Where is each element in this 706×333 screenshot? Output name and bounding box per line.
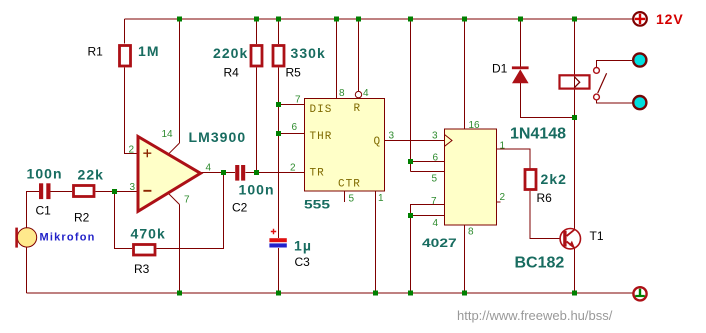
555 pin 4 inversion bubble bbox=[355, 91, 361, 97]
node bottom rail op-amp 7 bbox=[177, 291, 182, 296]
wire 4027 pin 16 to rail bbox=[464, 19, 466, 129]
wire 555 pin 1 to ground rail bbox=[375, 191, 377, 293]
node bottom rail 4027 pin 8 bbox=[462, 291, 467, 296]
wire R4 top bbox=[256, 19, 258, 44]
wire op-amp pin 14 diagonal bbox=[168, 143, 179, 154]
svg-text:220k: 220k bbox=[213, 45, 248, 61]
svg-text:C2: C2 bbox=[232, 201, 248, 215]
svg-text:7: 7 bbox=[184, 195, 190, 206]
capacitor C3 electrolytic bbox=[269, 229, 312, 269]
svg-text:12V: 12V bbox=[656, 11, 684, 27]
svg-text:http://www.freeweb.hu/bss/: http://www.freeweb.hu/bss/ bbox=[457, 308, 613, 323]
node THR bbox=[276, 131, 281, 136]
wire op-amp output to C2 bbox=[201, 172, 236, 174]
wire 4027 pin 6 stub bbox=[411, 161, 445, 163]
svg-text:R6: R6 bbox=[537, 191, 553, 205]
wire 4027 pin 5 stub bbox=[411, 171, 445, 173]
svg-text:5: 5 bbox=[432, 174, 438, 185]
svg-text:8: 8 bbox=[339, 88, 345, 99]
svg-text:DIS: DIS bbox=[310, 104, 333, 116]
svg-text:R3: R3 bbox=[134, 262, 150, 276]
wire emitter to ground rail bbox=[574, 248, 576, 294]
svg-text:6: 6 bbox=[292, 122, 298, 133]
svg-text:THR: THR bbox=[310, 131, 333, 143]
svg-text:C3: C3 bbox=[295, 255, 311, 269]
svg-text:Q: Q bbox=[374, 136, 382, 148]
wire 555 pin 5 stub bbox=[344, 191, 346, 202]
svg-text:4027: 4027 bbox=[422, 236, 457, 250]
resistor R1 bbox=[88, 43, 160, 66]
wire D1 top to rail bbox=[520, 19, 522, 67]
capacitor C1 bbox=[27, 166, 63, 218]
wire 555 pin 8 to rail bbox=[336, 19, 338, 99]
wire 4027 J K supply bbox=[410, 19, 412, 172]
wire R3 right to output node bbox=[157, 173, 224, 249]
node top rail relay bbox=[572, 17, 577, 22]
node bottom rail 4027 pin 4 bbox=[408, 291, 413, 296]
node output feedback tap bbox=[221, 170, 226, 175]
svg-text:Mikrofon: Mikrofon bbox=[40, 232, 96, 244]
svg-text:7: 7 bbox=[295, 95, 301, 106]
svg-text:22k: 22k bbox=[78, 167, 105, 183]
node D1 relay collector bbox=[572, 115, 577, 120]
node top rail R5 bbox=[276, 17, 281, 22]
svg-text:4: 4 bbox=[206, 163, 212, 174]
wire 4027 pin 2 stub bbox=[497, 201, 501, 203]
svg-text:BC182: BC182 bbox=[515, 255, 565, 272]
wire R5 bottom through DIS THR to C3 bbox=[278, 68, 280, 239]
wire R1 top to rail bbox=[124, 19, 126, 44]
svg-text:R5: R5 bbox=[286, 66, 302, 80]
node 4027 pin 4 bbox=[408, 213, 413, 218]
IC U2 555 bbox=[290, 88, 395, 211]
svg-text:T1: T1 bbox=[590, 229, 604, 243]
resistor R6 bbox=[525, 170, 567, 206]
capacitor C2 bbox=[232, 165, 275, 215]
svg-text:6: 6 bbox=[433, 153, 439, 164]
svg-text:1N4148: 1N4148 bbox=[510, 126, 566, 143]
wire op-amp pin 14 to rail bbox=[179, 19, 181, 143]
svg-text:4: 4 bbox=[433, 218, 439, 229]
svg-text:1M: 1M bbox=[138, 43, 160, 59]
wire 555 THR stub bbox=[279, 133, 305, 135]
wire 4027 pin 1 to R6 bbox=[497, 149, 531, 169]
wire mic bottom to ground rail bbox=[26, 247, 28, 293]
wire 555 DIS stub bbox=[279, 104, 305, 106]
terminal contact upper bbox=[633, 53, 646, 66]
svg-text:330k: 330k bbox=[291, 45, 326, 61]
wire R2 to op-amp pin 3 bbox=[96, 191, 140, 193]
node bottom rail C3 bbox=[276, 291, 281, 296]
node top rail D1 bbox=[518, 17, 523, 22]
transistor T1 BC182 bbox=[515, 229, 604, 272]
wire D1 bottom to relay node bbox=[521, 83, 575, 118]
wire switch lower contact bbox=[597, 100, 633, 103]
svg-text:100n: 100n bbox=[27, 166, 63, 182]
node top rail op-amp 14 bbox=[177, 17, 182, 22]
wire 555 Q to 4027 clock bbox=[385, 140, 445, 142]
svg-text:TR: TR bbox=[310, 168, 325, 180]
svg-text:4: 4 bbox=[363, 88, 369, 99]
op-amp U1 LM3900 bbox=[129, 129, 247, 211]
svg-text:2: 2 bbox=[500, 192, 506, 203]
wire R6 bottom to base bbox=[530, 191, 560, 239]
wire op-amp pin 7 diagonal bbox=[168, 193, 180, 205]
wire bottom ground rail bbox=[27, 292, 634, 294]
wire 555 pin 4 to rail bbox=[358, 19, 360, 91]
svg-text:2k2: 2k2 bbox=[541, 171, 568, 187]
svg-text:R2: R2 bbox=[74, 211, 90, 225]
terminal contact lower bbox=[633, 96, 646, 109]
wire mic to C1 bbox=[27, 192, 40, 228]
svg-text:3: 3 bbox=[432, 131, 438, 142]
svg-text:470k: 470k bbox=[131, 226, 166, 242]
relay coil K1 bbox=[560, 75, 590, 88]
svg-text:R: R bbox=[354, 103, 362, 115]
svg-text:R1: R1 bbox=[88, 45, 104, 59]
svg-text:1: 1 bbox=[500, 141, 506, 152]
resistor R5 bbox=[273, 45, 326, 80]
wire C3 bottom to ground rail bbox=[278, 248, 280, 293]
wire C1 to R2 bbox=[51, 191, 73, 193]
node 4027 pin 6 bbox=[408, 159, 413, 164]
svg-text:555: 555 bbox=[304, 197, 330, 211]
node top rail 555 pin 8 bbox=[334, 17, 339, 22]
resistor R4 bbox=[213, 45, 262, 80]
svg-text:1µ: 1µ bbox=[294, 238, 312, 254]
wire node to R3 left bbox=[115, 192, 133, 249]
node top rail 4027 pin 16 bbox=[462, 17, 467, 22]
diode D1 1N4148 bbox=[492, 62, 566, 143]
node top rail R4 bbox=[254, 17, 259, 22]
wire relay branch rail to collector bbox=[574, 19, 576, 230]
node op-amp pin 3 input bbox=[112, 189, 117, 194]
svg-text:2: 2 bbox=[290, 163, 296, 174]
svg-text:5: 5 bbox=[349, 194, 355, 205]
wire 4027 pin 7 stub bbox=[411, 205, 445, 294]
svg-text:100n: 100n bbox=[239, 182, 275, 198]
svg-text:R4: R4 bbox=[224, 66, 240, 80]
wire op-amp pin 7 to ground rail bbox=[179, 205, 181, 294]
wire R4 bottom bbox=[256, 68, 258, 173]
node bottom rail 555 pin 1 bbox=[373, 291, 378, 296]
wire top supply rail bbox=[125, 18, 633, 20]
node bottom rail emitter bbox=[572, 291, 577, 296]
wire 4027 pin 4 stub bbox=[411, 215, 445, 217]
wire C2 to 555 TR bbox=[246, 172, 305, 174]
terminal +12V bbox=[633, 11, 683, 27]
terminal ground bbox=[633, 287, 646, 300]
wire switch common upper bbox=[597, 61, 633, 68]
microphone MIC bbox=[15, 228, 95, 248]
node top rail 555 pin 4 bbox=[356, 17, 361, 22]
resistor R2 bbox=[74, 167, 105, 225]
svg-text:3: 3 bbox=[130, 182, 136, 193]
wire 4027 pin 8 to ground rail bbox=[464, 226, 466, 294]
svg-text:2: 2 bbox=[129, 145, 135, 156]
svg-text:1: 1 bbox=[378, 193, 384, 204]
svg-text:8: 8 bbox=[468, 227, 474, 238]
relay switch contacts bbox=[594, 68, 607, 100]
svg-text:C1: C1 bbox=[36, 204, 52, 218]
resistor R3 bbox=[131, 226, 166, 277]
node DIS bbox=[276, 102, 281, 107]
node R4 TR bbox=[254, 170, 259, 175]
wire R1 bottom to op-amp pin 2 bbox=[125, 68, 140, 154]
svg-text:3: 3 bbox=[389, 131, 395, 142]
svg-text:LM3900: LM3900 bbox=[189, 129, 247, 145]
svg-text:D1: D1 bbox=[492, 62, 508, 76]
svg-text:7: 7 bbox=[431, 196, 437, 207]
svg-text:CTR: CTR bbox=[338, 179, 361, 191]
wire R5 top bbox=[278, 19, 280, 44]
node top rail 4027 JK bbox=[408, 17, 413, 22]
svg-text:16: 16 bbox=[469, 120, 481, 131]
IC U3 4027 bbox=[422, 120, 506, 249]
svg-text:14: 14 bbox=[162, 129, 174, 140]
